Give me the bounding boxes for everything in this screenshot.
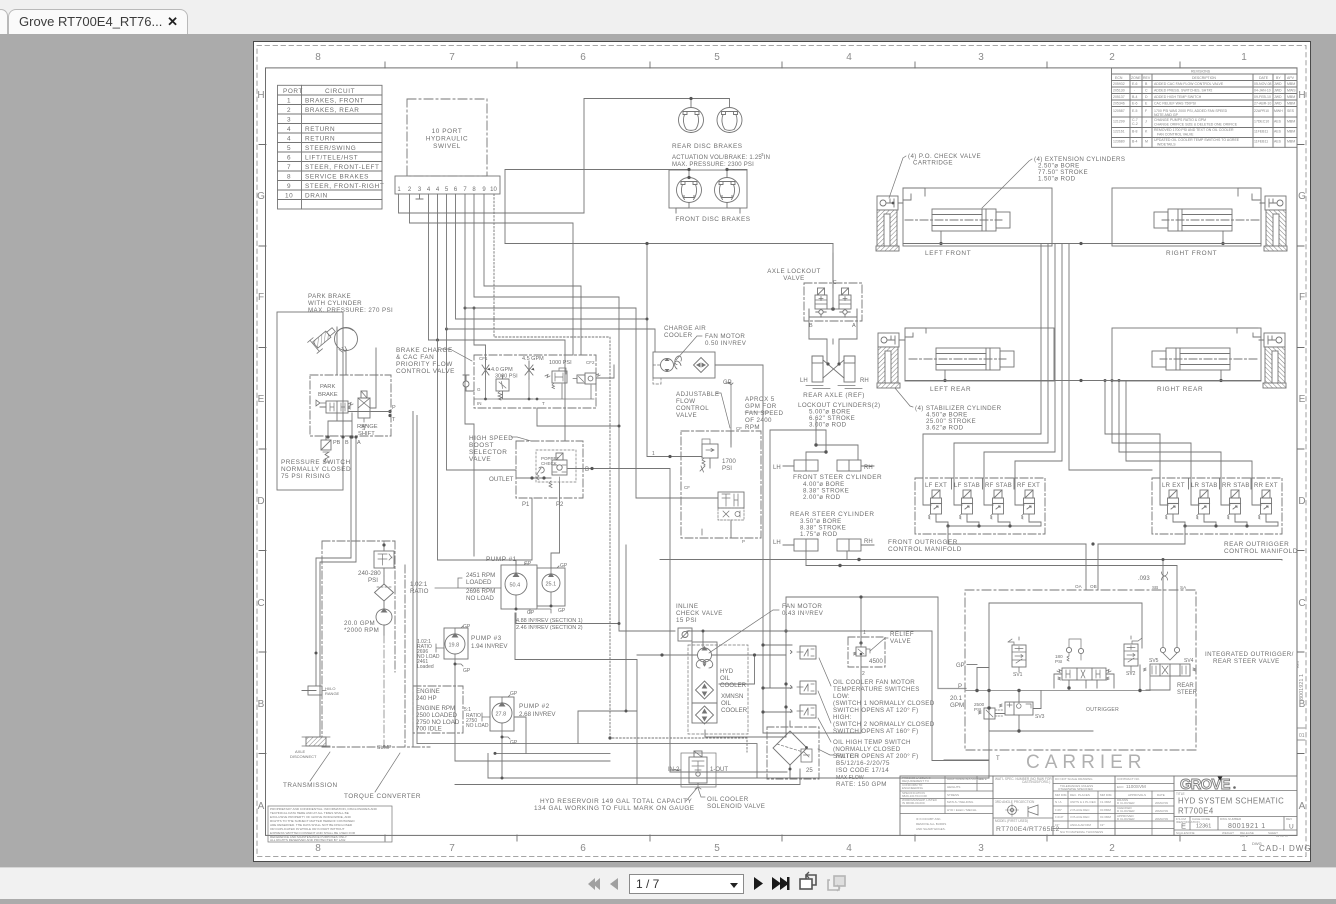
svg-text:CONTROL MANIFOLD: CONTROL MANIFOLD xyxy=(1224,548,1298,555)
zone tick marks top border xyxy=(259,62,1304,841)
high speed boost selector valve callout xyxy=(469,435,531,463)
svg-text:CF: CF xyxy=(736,426,742,431)
svg-text:5: 5 xyxy=(714,843,720,854)
prev-page button (disabled) xyxy=(610,878,618,890)
svg-text:RF EXT: RF EXT xyxy=(1017,483,1040,489)
extension cylinder right front xyxy=(1154,209,1259,231)
svg-text:CASTINGS/FORG.): CASTINGS/FORG.) xyxy=(1022,780,1050,784)
svg-text:4: 4 xyxy=(427,187,431,193)
svg-text:FAN MOTOR: FAN MOTOR xyxy=(705,333,745,340)
svg-text:2: 2 xyxy=(1109,843,1115,854)
stabilizer cylinder left front xyxy=(876,196,899,251)
svg-text:7: 7 xyxy=(287,164,291,171)
manifold tank wire xyxy=(1098,526,1185,544)
svg-text:RANGE: RANGE xyxy=(325,691,340,696)
wire bottom return bus 1 xyxy=(488,737,989,778)
svg-text:LOW:: LOW: xyxy=(833,693,850,700)
wire swivel port 1 xyxy=(399,194,585,213)
rear steer cylinder LH xyxy=(773,539,818,551)
wire pump1 case drain to return xyxy=(515,613,637,785)
svg-text:-: - xyxy=(1134,89,1136,93)
lockout cylinders xyxy=(798,356,881,429)
svg-text:CHECK VALVE: CHECK VALVE xyxy=(676,610,723,617)
svg-text:1-OUT: 1-OUT xyxy=(710,767,728,773)
wire bottom return bus 2 xyxy=(455,769,800,785)
shuttle valve xyxy=(549,453,567,488)
svg-text:OIL: OIL xyxy=(720,675,731,682)
svg-text:LOADED: LOADED xyxy=(466,579,492,586)
svg-text:MODEL (FIRST USED): MODEL (FIRST USED) xyxy=(995,819,1028,823)
svg-text:4.0 GPM: 4.0 GPM xyxy=(491,367,513,373)
svg-text:IN-2: IN-2 xyxy=(668,767,680,773)
svg-text:SUMP: SUMP xyxy=(377,745,392,751)
svg-text:SA: SA xyxy=(1180,585,1187,590)
svg-text:RR STAB: RR STAB xyxy=(1222,483,1250,489)
svg-text:±.06": ±.06" xyxy=(1055,808,1062,812)
svg-text:205346: 205346 xyxy=(1113,102,1125,106)
stabilizer cylinder left rear xyxy=(877,333,900,388)
charge filter xyxy=(375,576,394,609)
svg-text:GP: GP xyxy=(527,610,535,616)
cross wires xyxy=(823,360,844,378)
wire charge air cooler out to temp trunk xyxy=(715,365,792,733)
wire front manifold tank drop xyxy=(1085,544,1087,590)
engine spec box xyxy=(413,686,463,733)
pressure comp valve 1000 psi xyxy=(545,360,572,389)
park brake control valve xyxy=(316,400,353,413)
svg-text:SV2: SV2 xyxy=(1126,671,1136,677)
svg-text:MBM: MBM xyxy=(1287,140,1295,144)
stabilizer cylinder right rear xyxy=(1263,333,1286,388)
pressure switch xyxy=(281,435,361,480)
bottom toolbar xyxy=(0,867,1336,899)
svg-text:SOLENOID VALVE: SOLENOID VALVE xyxy=(707,803,765,810)
rear disc brakes xyxy=(584,97,770,213)
svg-text:CAC RELIEF WAS 750PSI: CAC RELIEF WAS 750PSI xyxy=(1154,102,1196,106)
svg-text:SWITCH OPENS AT 160° F): SWITCH OPENS AT 160° F) xyxy=(833,728,918,735)
svg-text:10 PORT: 10 PORT xyxy=(432,128,463,135)
wire swivel port 6 to axle lockout trunk xyxy=(456,194,648,319)
park brake / range shift valve group xyxy=(310,327,396,439)
browser tab bar xyxy=(0,0,1336,34)
svg-text:D CLOUSER: D CLOUSER xyxy=(1117,809,1135,813)
poppet check symbol xyxy=(537,467,544,474)
wire rear steer second bus xyxy=(806,566,1177,591)
svg-text:6: 6 xyxy=(287,154,291,161)
svg-text:15 PSI: 15 PSI xyxy=(676,617,697,624)
10 port hydraulic swivel xyxy=(395,99,500,199)
callout (4) extension cylinders xyxy=(982,156,1125,208)
valve SV3 xyxy=(1000,702,1045,720)
svg-text:J: J xyxy=(1145,120,1147,124)
charge pump pressure valve xyxy=(358,543,394,584)
svg-text:NORMALLY CLOSED: NORMALLY CLOSED xyxy=(281,466,351,473)
svg-text:REAR STEER VALVE: REAR STEER VALVE xyxy=(1213,658,1280,665)
front outrigger bus wire xyxy=(903,243,1261,245)
svg-text:BRAKES, FRONT: BRAKES, FRONT xyxy=(305,97,364,104)
svg-text:2 PLACE DEC: 2 PLACE DEC xyxy=(1070,808,1090,812)
svg-text:WITH CYLINDER: WITH CYLINDER xyxy=(308,300,362,307)
svg-text:MWH: MWH xyxy=(1274,109,1283,113)
svg-text:DATE: DATE xyxy=(1240,834,1248,838)
wire supply riser to P xyxy=(786,597,938,689)
svg-text:2.68 IN³/REV: 2.68 IN³/REV xyxy=(519,711,556,718)
svg-text:RH: RH xyxy=(864,539,873,545)
wire front steer cylinder links xyxy=(806,420,858,460)
svg-text:JWD: JWD xyxy=(1274,89,1282,93)
rear steer spool valve SV5/SV4 xyxy=(1144,658,1198,696)
svg-text:4: 4 xyxy=(287,135,291,142)
svg-text:*2000 RPM: *2000 RPM xyxy=(344,627,379,634)
svg-text:3.62"ø ROD: 3.62"ø ROD xyxy=(926,425,964,432)
svg-text:PARK: PARK xyxy=(320,384,335,390)
sheet number box right margin xyxy=(1297,728,1305,740)
svg-text:REAR: REAR xyxy=(1177,683,1194,689)
svg-text:6: 6 xyxy=(454,187,458,193)
wire park brake B down xyxy=(302,437,351,691)
svg-text:TRANSMISSION: TRANSMISSION xyxy=(283,782,338,789)
svg-text:Loaded: Loaded xyxy=(417,664,434,670)
svg-text:8001921 1: 8001921 1 xyxy=(1299,674,1305,700)
svg-text:ALL RIGHTS RESERVED AND PROTEC: ALL RIGHTS RESERVED AND PROTECTED BY LAW… xyxy=(270,838,346,842)
inline check valve xyxy=(676,603,723,641)
transmission enclosure xyxy=(283,541,430,800)
svg-text:7: 7 xyxy=(449,52,455,63)
front steer cylinder LH xyxy=(773,460,818,471)
node labels OA OB SB SA xyxy=(1075,584,1187,590)
svg-text:8: 8 xyxy=(287,173,291,180)
svg-text:APROX 5: APROX 5 xyxy=(745,396,775,403)
svg-text:D: D xyxy=(1298,496,1305,507)
svg-text:0.43 IN³/REV: 0.43 IN³/REV xyxy=(782,610,824,617)
wire fan motor loop xyxy=(637,655,786,684)
svg-text:MM DIM.: MM DIM. xyxy=(1100,793,1112,797)
outlet wire xyxy=(517,469,592,499)
wire stab RF to enclosure xyxy=(1238,188,1265,203)
svg-text:IF IN DOUBT ASK.: IF IN DOUBT ASK. xyxy=(916,817,941,821)
wire temp switch 2 feed xyxy=(763,687,792,689)
svg-text:LF STAB: LF STAB xyxy=(954,483,980,489)
relief valve 4500 xyxy=(848,630,914,677)
svg-text:N / A: N / A xyxy=(1055,800,1062,804)
svg-text:±0.3MM: ±0.3MM xyxy=(1100,815,1111,819)
wire relief riser xyxy=(763,597,944,761)
extension cylinder left front xyxy=(905,209,1010,231)
adjustable flow control valve xyxy=(652,380,761,544)
outrigger right front enclosure xyxy=(1112,188,1287,257)
svg-text:HIGH SPEED: HIGH SPEED xyxy=(469,435,513,442)
wire trunk continuation port5 xyxy=(447,329,517,470)
svg-text:IN 96000-00-000.: IN 96000-00-000. xyxy=(902,801,926,805)
solenoid valve LF EXT xyxy=(929,490,942,519)
svg-text:FRONT STEER CYLINDER: FRONT STEER CYLINDER xyxy=(793,474,882,481)
svg-text:REAR STEER CYLINDER: REAR STEER CYLINDER xyxy=(790,511,874,518)
svg-text:MAX. PRESSURE: 270 PSI: MAX. PRESSURE: 270 PSI xyxy=(308,307,393,314)
svg-text:RT700E4: RT700E4 xyxy=(1178,807,1214,816)
svg-text:G: G xyxy=(257,191,265,202)
svg-text:RATE: 150 GPM: RATE: 150 GPM xyxy=(836,781,887,788)
svg-text:ENGINE RPM: ENGINE RPM xyxy=(416,705,455,712)
svg-text:3: 3 xyxy=(418,187,422,193)
wire swivel port 2 to brake charge CF1 xyxy=(410,194,574,355)
svg-text:2451 RPM: 2451 RPM xyxy=(466,572,495,579)
svg-text:4: 4 xyxy=(287,126,291,133)
svg-text:120587: 120587 xyxy=(1113,109,1125,113)
svg-text:DEC. PLACES: DEC. PLACES xyxy=(1070,793,1090,797)
zone tick marks right border xyxy=(1297,145,1304,754)
svg-text:3: 3 xyxy=(978,52,984,63)
svg-text:E: E xyxy=(1145,102,1148,106)
svg-text:CAD-I DWG: CAD-I DWG xyxy=(1259,844,1310,853)
svg-text:SV5: SV5 xyxy=(1149,658,1159,664)
svg-text:3: 3 xyxy=(287,116,291,123)
svg-text:RIGHT REAR: RIGHT REAR xyxy=(1157,386,1203,393)
next-view icon (disabled) xyxy=(828,876,845,891)
svg-text:DATE: DATE xyxy=(1157,793,1165,797)
temperature switch 1 xyxy=(791,646,817,659)
wire boost valve P1 xyxy=(516,498,532,565)
svg-text:SES: SES xyxy=(1287,109,1295,113)
svg-text:.093: .093 xyxy=(1138,576,1150,582)
svg-text:E-5: E-5 xyxy=(1132,109,1138,113)
svg-text:HEIGHTS: HEIGHTS xyxy=(947,785,960,789)
svg-text:OIL COOLER FAN MOTOR: OIL COOLER FAN MOTOR xyxy=(833,679,915,686)
svg-text:(SWITCH 1 NORMALLY CLOSED: (SWITCH 1 NORMALLY CLOSED xyxy=(833,700,935,707)
svg-text:JWD: JWD xyxy=(1274,102,1282,106)
svg-text:OUTRIGGER: OUTRIGGER xyxy=(1086,707,1119,713)
svg-text:1: 1 xyxy=(1241,52,1247,63)
node RF cylinder to bus xyxy=(1222,231,1224,244)
svg-text:2: 2 xyxy=(287,107,291,114)
svg-text:700 IDLE: 700 IDLE xyxy=(416,726,442,733)
svg-text:2696 RPM: 2696 RPM xyxy=(466,588,495,595)
svg-text:APV: APV xyxy=(1287,76,1295,80)
svg-text:SCALE: SCALE xyxy=(1176,831,1186,835)
svg-text:P1: P1 xyxy=(522,502,530,508)
wire brake charge T return xyxy=(537,408,619,426)
svg-text:OIL HIGH TEMP SWITCH: OIL HIGH TEMP SWITCH xyxy=(833,739,911,746)
svg-text:NO LOAD: NO LOAD xyxy=(466,723,489,729)
svg-text:27-ABR-10: 27-ABR-10 xyxy=(1254,102,1271,106)
svg-text:205137: 205137 xyxy=(1113,95,1125,99)
fan motor xyxy=(661,359,674,372)
wire T return bus xyxy=(455,664,610,761)
svg-text:SELECTOR: SELECTOR xyxy=(469,449,507,456)
solenoid valve LF STAB xyxy=(960,490,973,519)
svg-text:PSI: PSI xyxy=(722,465,732,472)
wire swivel port 10 drain (dotted) xyxy=(494,194,747,752)
svg-text:AES: AES xyxy=(1274,130,1282,134)
svg-text:B5/12/16-2/20/75: B5/12/16-2/20/75 xyxy=(836,760,890,767)
svg-text:VALVE: VALVE xyxy=(676,412,697,419)
vertical dwg number on right margin xyxy=(1296,660,1305,700)
svg-text:2500 LOADED: 2500 LOADED xyxy=(416,712,457,719)
svg-text:3 PLACE DEC: 3 PLACE DEC xyxy=(1070,815,1090,819)
svg-text:05-NOV-08: 05-NOV-08 xyxy=(1254,82,1272,86)
svg-text:5: 5 xyxy=(445,187,449,193)
wire charge pump shaft xyxy=(383,541,385,747)
svg-text:T: T xyxy=(542,401,545,406)
svg-text:CONTROL: CONTROL xyxy=(676,405,709,412)
svg-text:A: A xyxy=(1299,801,1306,812)
svg-text:±0.8MM: ±0.8MM xyxy=(1100,808,1111,812)
svg-text:XMNSN: XMNSN xyxy=(721,693,743,700)
svg-text:GP: GP xyxy=(463,668,471,674)
fan motor callout (oil cooler) xyxy=(709,603,824,653)
svg-text:BOOST: BOOST xyxy=(469,442,494,449)
svg-text:2.46 IN³/REV (SECTION 2): 2.46 IN³/REV (SECTION 2) xyxy=(516,625,583,631)
svg-text:11FEB11: 11FEB11 xyxy=(1254,130,1268,134)
next-page button xyxy=(754,877,763,890)
svg-text:2: 2 xyxy=(1109,52,1115,63)
svg-text:A: A xyxy=(852,323,856,329)
svg-text:ANGULAR DIM: ANGULAR DIM xyxy=(1070,823,1091,827)
svg-text:3: 3 xyxy=(761,152,764,157)
svg-text:E: E xyxy=(1299,394,1306,405)
svg-text:CHARGE AIR: CHARGE AIR xyxy=(664,325,706,332)
svg-text:REMOVE ALL BURRS: REMOVE ALL BURRS xyxy=(916,822,946,826)
cooler core diamond xyxy=(694,358,709,373)
svg-text:8: 8 xyxy=(315,843,321,854)
solenoid valve CF2 xyxy=(573,373,600,384)
svg-text:8001921 1: 8001921 1 xyxy=(1228,823,1266,830)
svg-text:COOLER: COOLER xyxy=(720,682,747,689)
svg-text:E-6: E-6 xyxy=(1132,102,1138,106)
svg-text:GP: GP xyxy=(558,608,566,614)
charge air cooler xyxy=(653,325,747,384)
callout (4) P.O. check valve cartridge xyxy=(889,153,981,198)
wire swivel port 4a xyxy=(428,194,430,340)
wire swivel port 5 to charge air cooler xyxy=(447,194,656,352)
svg-text:09-FEB-10: 09-FEB-10 xyxy=(1254,95,1271,99)
svg-text:B-8: B-8 xyxy=(1132,130,1138,134)
svg-text:H: H xyxy=(1298,90,1305,101)
svg-text:CHANGE PUMPS RATIO & GPM: CHANGE PUMPS RATIO & GPM xyxy=(1154,118,1206,122)
svg-text:T: T xyxy=(996,756,1000,762)
svg-text:PUMP #1: PUMP #1 xyxy=(486,556,517,563)
ground / drain symbol under port 3 xyxy=(416,194,423,199)
svg-text:RT700E4/RT765E2: RT700E4/RT765E2 xyxy=(996,826,1060,833)
svg-text:25: 25 xyxy=(806,768,813,774)
svg-text:OTHERWISE SPECIFIED: OTHERWISE SPECIFIED xyxy=(1058,787,1094,791)
adjustable flow control valve callout xyxy=(676,391,783,431)
rear outrigger bus wire xyxy=(905,380,1261,382)
wire to front brakes xyxy=(505,170,747,244)
svg-text:2: 2 xyxy=(862,671,865,677)
wire swivel port 7 xyxy=(465,194,702,556)
svg-text:12361: 12361 xyxy=(1196,824,1211,830)
svg-text:TEMPERATURE SWITCHES: TEMPERATURE SWITCHES xyxy=(833,686,920,693)
front disc brakes xyxy=(505,168,751,244)
svg-text:MBM: MBM xyxy=(1287,102,1295,106)
svg-text:A: A xyxy=(258,801,265,812)
svg-text:FILTER: FILTER xyxy=(836,753,859,760)
svg-text:REAR DISC BRAKES: REAR DISC BRAKES xyxy=(672,143,743,150)
svg-text:K: K xyxy=(1145,130,1148,134)
oil cooler fan motor temperature switches note xyxy=(833,679,935,735)
svg-text:1: 1 xyxy=(287,97,291,104)
wire stab LR to enclosure xyxy=(899,328,926,340)
previous-view icon xyxy=(800,872,816,889)
svg-text:C: C xyxy=(833,280,837,286)
axle disconnect xyxy=(306,737,326,746)
svg-text:REV: REV xyxy=(1286,817,1292,821)
pressure switch enclosure xyxy=(277,312,343,490)
svg-text:T: T xyxy=(392,417,396,423)
svg-text:RELIEF: RELIEF xyxy=(890,631,914,638)
high speed boost selector valve xyxy=(489,441,594,508)
svg-text:REMOVED 1700 PSI AND TEXT ON O: REMOVED 1700 PSI AND TEXT ON OIL COOLER xyxy=(1154,128,1234,132)
wire park brake P down xyxy=(412,412,414,748)
svg-text:ADDED PRESS. SWITCHES, SHT#2: ADDED PRESS. SWITCHES, SHT#2 xyxy=(1154,89,1212,93)
svg-text:D CLOUSER: D CLOUSER xyxy=(1117,817,1135,821)
svg-text:122161: 122161 xyxy=(1113,130,1125,134)
title block left section xyxy=(900,776,993,831)
svg-text:JWD: JWD xyxy=(1274,95,1282,99)
svg-text:PSI: PSI xyxy=(1055,659,1062,664)
hyd cooler core xyxy=(696,681,714,699)
svg-text:& CAC FAN: & CAC FAN xyxy=(396,354,434,361)
wire stab LF to enclosure xyxy=(898,188,925,203)
svg-text:ECN: ECN xyxy=(1115,76,1123,80)
wire GP stub xyxy=(967,664,977,666)
svg-text:G: G xyxy=(1298,191,1306,202)
svg-text:01 OF 07: 01 OF 07 xyxy=(1276,834,1289,838)
lockout solenoid valve R xyxy=(839,288,851,317)
manifold bus wire xyxy=(1173,518,1278,526)
temperature switch 2 xyxy=(791,681,817,694)
svg-text:DWG NUMBER: DWG NUMBER xyxy=(1220,817,1242,821)
svg-text:GP: GP xyxy=(510,740,518,746)
wire pressure switch stub xyxy=(325,437,327,440)
svg-text:P: P xyxy=(958,684,962,690)
wire GP adj flow control source xyxy=(726,383,731,447)
svg-text:P2: P2 xyxy=(556,502,564,508)
svg-text:B: B xyxy=(258,699,265,710)
wire check valve to fan motor xyxy=(687,631,763,647)
svg-text:3RD ANGLE PROJECTION: 3RD ANGLE PROJECTION xyxy=(995,800,1035,804)
svg-text:4.88 IN³/REV (SECTION 1): 4.88 IN³/REV (SECTION 1) xyxy=(516,618,583,624)
valve SV1 xyxy=(1008,637,1026,678)
svg-text:7: 7 xyxy=(463,187,467,193)
svg-text:FLOW: FLOW xyxy=(676,398,695,405)
svg-text:17DEC10: 17DEC10 xyxy=(1254,120,1269,124)
svg-text:PRESSURE SWITCH: PRESSURE SWITCH xyxy=(281,459,351,466)
svg-text:1.94 IN³/REV: 1.94 IN³/REV xyxy=(471,643,508,650)
svg-text:N/A TO MATERIAL THICKNESS: N/A TO MATERIAL THICKNESS xyxy=(1060,830,1103,834)
axle lockout valve xyxy=(767,253,862,364)
svg-text:LH: LH xyxy=(773,465,781,471)
solenoid valve RF STAB xyxy=(991,490,1004,519)
wire front outrigger feeds from bus xyxy=(923,244,1041,506)
front outrigger control manifold xyxy=(888,478,1086,553)
svg-text:RANGE: RANGE xyxy=(357,424,378,430)
park brake cylinder xyxy=(335,328,358,351)
svg-text:BRAKES, REAR: BRAKES, REAR xyxy=(305,107,359,114)
wire boost valve outlet to filter xyxy=(592,469,787,773)
svg-text:AND SHARP EDGES.: AND SHARP EDGES. xyxy=(916,827,946,831)
stabilizer cylinder right front xyxy=(1264,196,1287,251)
zone tick marks bottom border xyxy=(385,835,1180,841)
outrigger left rear enclosure xyxy=(877,328,1054,393)
third angle projection symbol xyxy=(1008,806,1017,815)
node LR cylinder to bus xyxy=(944,370,946,381)
svg-text:B: B xyxy=(809,323,813,329)
wire C feed xyxy=(832,253,834,309)
wire cooler to filter xyxy=(705,631,793,737)
svg-text:20MAY09: 20MAY09 xyxy=(1155,801,1168,805)
svg-text:BRAKE CHARGE: BRAKE CHARGE xyxy=(396,347,453,354)
